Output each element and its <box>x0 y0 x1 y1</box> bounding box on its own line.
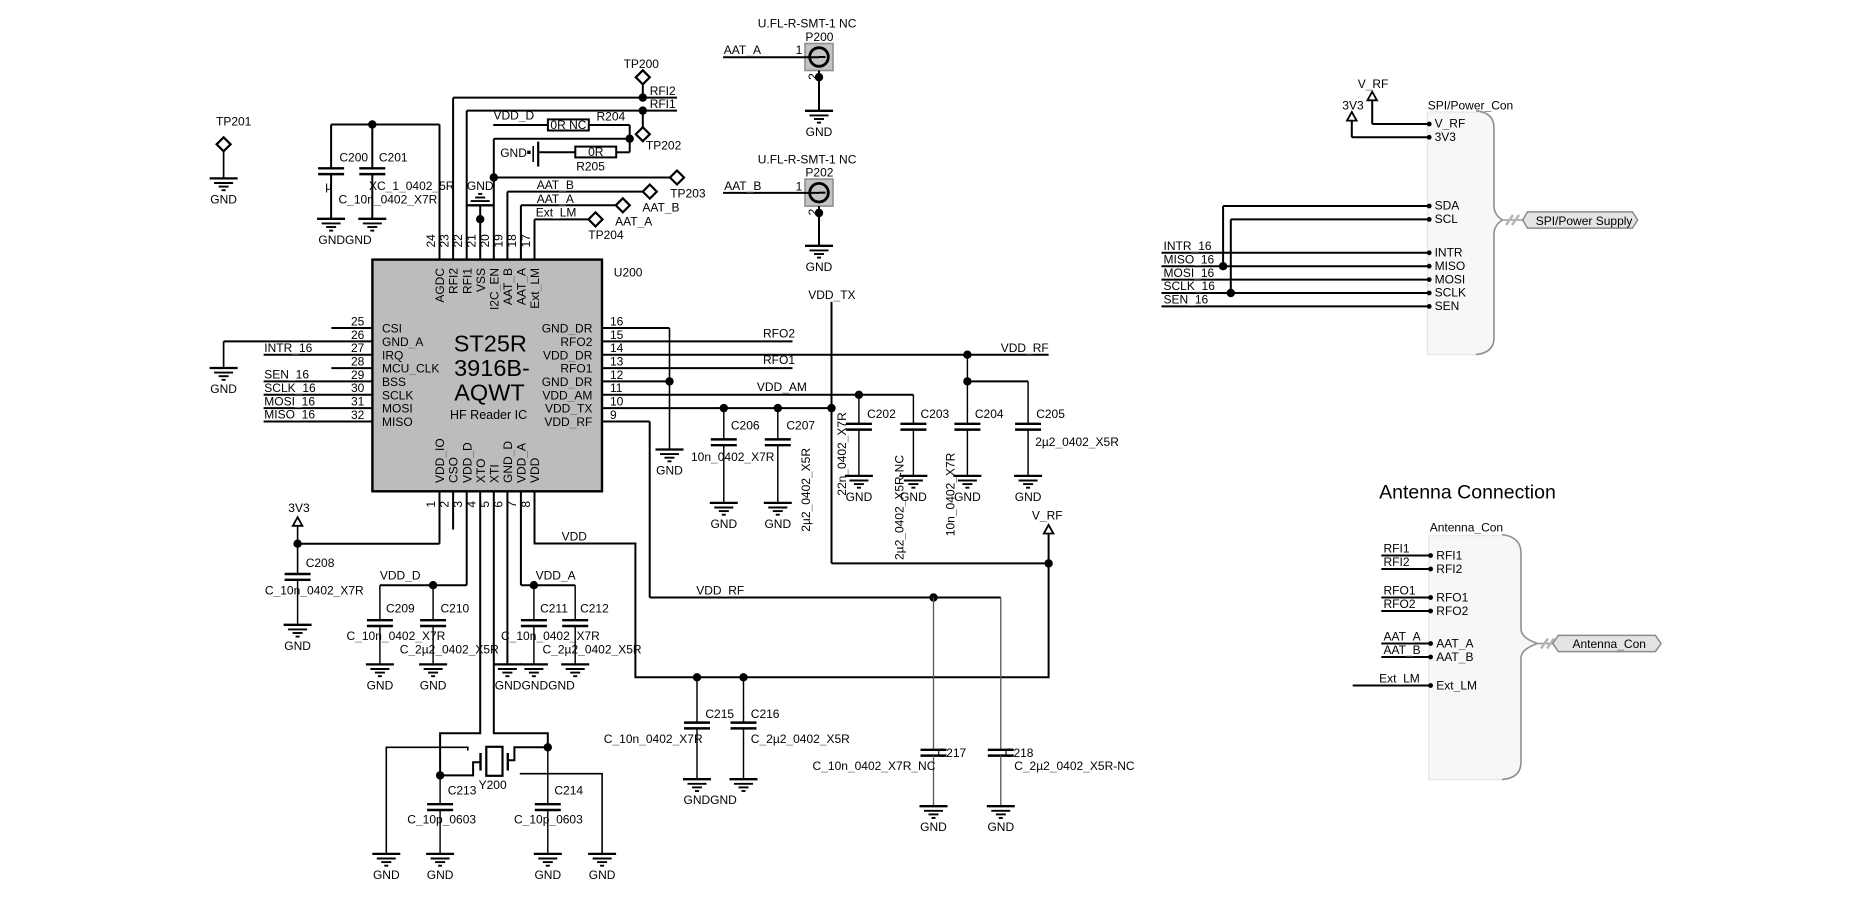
wire VDD_TX (pin 10) <box>602 407 832 409</box>
svg-text:VDD_D: VDD_D <box>380 568 421 582</box>
wire CSO stub (pin 2) <box>452 491 454 529</box>
svg-text:TP202: TP202 <box>646 139 682 153</box>
node C217 junction <box>929 593 937 601</box>
svg-text:MISO_16: MISO_16 <box>1164 252 1215 266</box>
svg-text:R205: R205 <box>576 160 605 174</box>
IC U200 right pin numbers 16-9 <box>610 314 624 422</box>
wire SEN_16 to harness <box>1162 305 1430 307</box>
node C207 junction <box>774 404 782 412</box>
node V_RF junction <box>1044 559 1052 567</box>
svg-text:µ: µ <box>325 179 332 193</box>
node VSS dot <box>476 215 484 223</box>
wire AAT_B to Antenna_Con <box>1381 656 1430 658</box>
svg-text:9: 9 <box>610 408 617 422</box>
wire AAT_A row (pin 18) <box>521 205 616 259</box>
capacitor C217 (NC) <box>813 598 967 807</box>
svg-text:C210: C210 <box>441 602 470 616</box>
ground GND (P202) <box>805 246 833 274</box>
svg-text:C214: C214 <box>554 784 583 798</box>
IC U200 ST25R3916B-AQWT body <box>372 260 642 492</box>
harness label SPI/Power Supply <box>1523 212 1638 228</box>
ground GND (C202) <box>845 476 873 504</box>
wire VDD_DR / VDD_RF net (pin 14) <box>602 354 1049 356</box>
svg-text:Ext_LM: Ext_LM <box>1436 679 1477 693</box>
ground GND (C206) <box>710 503 738 531</box>
node C206 junction <box>720 404 728 412</box>
svg-text:GND: GND <box>806 125 833 139</box>
power flag 3V3 (SPI) <box>1342 99 1364 121</box>
svg-text:XTI: XTI <box>487 464 501 483</box>
harness connector Antenna_Con panel <box>1429 520 1538 779</box>
svg-text:C207: C207 <box>786 418 815 432</box>
svg-text:Y200: Y200 <box>479 778 507 792</box>
capacitor C200 <box>318 151 368 219</box>
node 3V3 junction <box>293 540 301 548</box>
svg-text:GND: GND <box>987 820 1014 834</box>
wire AAT_B row (pin 19) <box>507 192 642 260</box>
wire AAT_A to Antenna_Con <box>1381 643 1430 645</box>
svg-text:MCU_CLK: MCU_CLK <box>382 362 439 376</box>
capacitor C210 <box>400 585 499 664</box>
svg-text:VDD: VDD <box>528 457 542 483</box>
node SDA/MISO_16 junction <box>1219 262 1227 270</box>
svg-text:VDD: VDD <box>562 530 588 544</box>
connector P202 (U.FL-R-SMT-1 NC) <box>758 153 857 207</box>
power flag V_RF (SPI) <box>1358 77 1389 100</box>
svg-text:C218: C218 <box>1005 746 1034 760</box>
wire crystal frame left to ground <box>386 747 468 854</box>
ground GND (C201) <box>318 219 386 247</box>
wire CSI stub (pin 25) <box>331 327 372 329</box>
node TP203 tap junction <box>490 173 498 181</box>
svg-text:MISO_16: MISO_16 <box>264 408 315 422</box>
svg-text:XC_1_0402_5R: XC_1_0402_5R <box>369 179 455 193</box>
svg-text:RFI1: RFI1 <box>650 97 676 111</box>
svg-text:AAT_A: AAT_A <box>1436 637 1473 651</box>
wire MISO_16 to harness <box>1162 265 1430 267</box>
wire VDD_A net (pin 7) <box>521 491 575 620</box>
wire AAT_B to P202 pin 1 <box>723 192 819 194</box>
svg-text:10n_0402_X7R: 10n_0402_X7R <box>691 450 775 464</box>
svg-text:VDD_DR: VDD_DR <box>543 348 593 362</box>
svg-text:Ext_LM: Ext_LM <box>528 268 542 309</box>
wire 3V3 to harness <box>1352 121 1429 138</box>
capacitor C205 <box>1015 407 1119 476</box>
svg-text:C201: C201 <box>379 151 408 165</box>
node VDD_TX junction <box>827 404 835 412</box>
svg-text:C211: C211 <box>540 602 568 616</box>
wire GND_D (pin 6) <box>506 491 508 664</box>
wire MOSI_16 (pin 31) <box>264 407 373 409</box>
node P202 pin 2 dot <box>815 209 823 217</box>
svg-text:19: 19 <box>492 234 506 248</box>
svg-text:30: 30 <box>351 381 365 395</box>
node C216 junction <box>739 673 747 681</box>
svg-text:20: 20 <box>478 234 492 248</box>
svg-text:GND: GND <box>367 678 394 692</box>
svg-text:2µ2_0402_X5R: 2µ2_0402_X5R <box>799 448 813 532</box>
svg-text:MOSI: MOSI <box>382 402 413 416</box>
svg-text:AAT_A: AAT_A <box>615 215 652 229</box>
svg-text:GND: GND <box>954 490 981 504</box>
power flag V_RF <box>1032 509 1063 534</box>
svg-text:RFI2: RFI2 <box>1436 562 1462 576</box>
svg-text:AAT_B: AAT_B <box>1384 643 1421 657</box>
node RFI2/TP200 junction <box>639 93 647 101</box>
node C202 junction <box>855 391 863 399</box>
svg-text:C_2µ2_0402_X5R: C_2µ2_0402_X5R <box>543 643 642 657</box>
crystal Y200 <box>479 747 508 792</box>
ground GND net tick (R205) <box>500 142 538 167</box>
svg-text:SDA: SDA <box>1435 199 1460 213</box>
svg-text:VDD_A: VDD_A <box>515 443 529 483</box>
wire VDD_RF run (pin 9) <box>602 422 1001 598</box>
svg-text:GND_D: GND_D <box>501 441 515 483</box>
svg-text:18: 18 <box>505 234 519 248</box>
test point TP200 <box>624 57 660 98</box>
svg-text:AAT_B: AAT_B <box>501 268 515 305</box>
svg-text:GND: GND <box>500 146 527 160</box>
svg-text:24: 24 <box>424 234 438 248</box>
svg-text:VDD_AM: VDD_AM <box>757 380 807 394</box>
svg-text:SCLK: SCLK <box>1435 286 1466 300</box>
svg-text:C215: C215 <box>705 707 734 721</box>
svg-text:RFO2: RFO2 <box>560 335 592 349</box>
ground GND (GND_D) <box>493 664 521 676</box>
node R204/R205 junction <box>626 135 634 143</box>
capacitor C214 <box>514 747 583 854</box>
svg-text:11: 11 <box>610 381 623 395</box>
svg-text:AQWT: AQWT <box>454 379 525 405</box>
svg-text:P202: P202 <box>805 166 833 180</box>
wire RFO2 to Antenna_Con <box>1381 610 1430 612</box>
svg-text:SEN_16: SEN_16 <box>1164 293 1209 307</box>
svg-text:RFO1: RFO1 <box>1436 591 1468 605</box>
ground GND (C207) <box>764 503 792 531</box>
wire R204 right <box>589 125 630 152</box>
wire crystal frame right to ground <box>520 774 602 854</box>
svg-text:25: 25 <box>351 314 365 328</box>
ground GND (C200) <box>317 219 345 231</box>
svg-text:C216: C216 <box>751 707 780 721</box>
wire crystal right lead <box>509 747 548 760</box>
wire MISO_16 (pin 32) <box>264 421 373 423</box>
svg-text:AAT_B: AAT_B <box>1436 650 1473 664</box>
node P200 pin 2 dot <box>815 73 823 81</box>
svg-text:GND_DR: GND_DR <box>542 375 593 389</box>
wire INTR_16 to harness <box>1162 252 1430 254</box>
ground GND (C213) <box>426 854 454 882</box>
capacitor C213 <box>407 775 476 854</box>
svg-text:27: 27 <box>351 341 365 355</box>
svg-text:VDD_RF: VDD_RF <box>1001 341 1049 355</box>
capacitor C218 (NC) <box>988 598 1135 807</box>
svg-text:GNDGND: GNDGND <box>684 793 738 807</box>
capacitor C202 <box>835 395 896 496</box>
svg-text:AAT_B: AAT_B <box>724 179 761 193</box>
wire AGDC net (C200/C201 to pin 24) <box>331 125 439 260</box>
wire TP203 row <box>494 177 670 179</box>
svg-text:AAT_A: AAT_A <box>724 43 761 57</box>
svg-text:28: 28 <box>351 355 365 369</box>
svg-text:GNDGND: GNDGND <box>318 233 372 247</box>
svg-text:INTR: INTR <box>1435 246 1463 260</box>
svg-text:VDD_A: VDD_A <box>536 568 576 582</box>
test point TP204 <box>588 212 624 242</box>
IC U200 top pin numbers 24-17 <box>424 234 533 248</box>
wire XTO (pin 4) to crystal <box>440 491 480 775</box>
wire VSS (pin 21) <box>479 205 481 259</box>
test point TP202 <box>636 111 682 153</box>
svg-text:22n_0402_X7R: 22n_0402_X7R <box>835 412 849 496</box>
svg-text:3V3: 3V3 <box>1342 99 1364 113</box>
wire XTI (pin 5) to crystal <box>494 491 548 747</box>
svg-text:GND: GND <box>534 868 561 882</box>
wire SEN_16 (pin 29) <box>264 380 373 382</box>
wire GND tick to R205 <box>539 151 575 153</box>
svg-text:MOSI_16: MOSI_16 <box>1164 266 1215 280</box>
node AGDC junction <box>368 120 376 128</box>
node RFI1/TP202 junction <box>639 106 647 114</box>
harness bundle link Antenna <box>1537 639 1554 649</box>
svg-text:P200: P200 <box>805 30 833 44</box>
svg-text:VDD_RF: VDD_RF <box>696 584 744 598</box>
IC U200 right pin names <box>542 322 593 430</box>
wire RFI1 to Antenna_Con <box>1381 555 1430 557</box>
svg-text:VDD_TX: VDD_TX <box>808 288 855 302</box>
svg-text:SPI/Power_Con: SPI/Power_Con <box>1428 99 1513 113</box>
svg-text:Antenna Connection: Antenna Connection <box>1379 482 1556 504</box>
svg-text:TP200: TP200 <box>624 57 660 71</box>
ground GND (GND_A) <box>210 368 238 396</box>
wire MOSI_16 to harness <box>1162 279 1430 281</box>
svg-text:3V3: 3V3 <box>288 501 310 515</box>
svg-text:INTR_16: INTR_16 <box>1164 239 1212 253</box>
svg-text:RFO1: RFO1 <box>1384 584 1416 598</box>
ground GND (C214) <box>534 854 562 882</box>
node GND_DR junction <box>665 377 673 385</box>
wire SDA (to MISO_16) <box>1223 206 1429 266</box>
svg-text:1: 1 <box>424 501 438 508</box>
svg-text:GND: GND <box>1015 490 1042 504</box>
svg-text:C204: C204 <box>975 407 1004 421</box>
wire VDD_TX vertical <box>832 302 1049 564</box>
wire crystal left lead <box>440 762 479 775</box>
wire RFI2 to Antenna_Con <box>1381 568 1430 570</box>
svg-text:MOSI_16: MOSI_16 <box>264 394 315 408</box>
ground GND (VSS, inverted) <box>467 179 494 206</box>
svg-text:GND: GND <box>846 490 873 504</box>
svg-text:MISO: MISO <box>382 415 413 429</box>
harness pin dots and names (SPI/Power_Con) <box>1427 117 1466 313</box>
wire RFO1 to Antenna_Con <box>1381 597 1430 599</box>
svg-text:SEN_16: SEN_16 <box>264 368 309 382</box>
wire V_RF vertical <box>1048 534 1050 564</box>
svg-text:AAT_B: AAT_B <box>537 178 574 192</box>
svg-text:1: 1 <box>796 179 803 193</box>
test point TP203 <box>670 171 706 201</box>
svg-text:RFI2: RFI2 <box>1384 555 1410 569</box>
harness label Antenna_Con <box>1553 635 1661 651</box>
svg-text:C203: C203 <box>921 407 950 421</box>
svg-text:12: 12 <box>610 368 624 382</box>
svg-text:SCL: SCL <box>1435 212 1459 226</box>
svg-text:RFO1: RFO1 <box>560 362 592 376</box>
svg-text:2µ2_0402_X5R-NC: 2µ2_0402_X5R-NC <box>892 455 906 560</box>
test point AAT_B <box>642 185 679 215</box>
svg-text:1: 1 <box>796 43 803 57</box>
node C211 junction <box>530 581 538 589</box>
svg-text:C_10p_0603: C_10p_0603 <box>407 813 476 827</box>
wire P202 pin 2 to ground <box>818 206 820 246</box>
svg-text:GND: GND <box>589 868 616 882</box>
test point TP201 <box>216 115 252 152</box>
connector P200 (U.FL-R-SMT-1 NC) <box>758 17 857 71</box>
capacitor C203 <box>892 407 949 560</box>
svg-text:V_RF: V_RF <box>1358 77 1389 91</box>
IC U200 bottom pin numbers 1-8 <box>424 501 533 508</box>
IC U200 top pin names <box>433 268 542 310</box>
svg-text:2µ2_0402_X5R: 2µ2_0402_X5R <box>1035 435 1119 449</box>
svg-text:VSS: VSS <box>474 268 488 292</box>
wire RFO1 (pin 13) <box>602 367 793 369</box>
svg-text:C_10n_0402_X7R: C_10n_0402_X7R <box>265 584 364 598</box>
harness pin dots and names (Antenna_Con) <box>1428 549 1477 693</box>
svg-text:3916B-: 3916B- <box>454 355 530 381</box>
svg-text:Antenna_Con: Antenna_Con <box>1430 520 1503 534</box>
svg-text:C_10n_0402_X7R: C_10n_0402_X7R <box>501 629 600 643</box>
svg-text:C212: C212 <box>580 602 609 616</box>
svg-text:RFI2: RFI2 <box>447 268 461 294</box>
svg-text:RFO2: RFO2 <box>1436 604 1468 618</box>
svg-text:31: 31 <box>351 395 365 409</box>
IC U200 left pin numbers 25-32 <box>351 314 365 422</box>
svg-text:SCLK: SCLK <box>382 388 413 402</box>
svg-text:GND: GND <box>373 868 400 882</box>
capacitor C211 <box>501 585 600 664</box>
svg-text:U.FL-R-SMT-1 NC: U.FL-R-SMT-1 NC <box>758 17 857 31</box>
IC U200 bottom pin names <box>433 438 542 483</box>
svg-text:XTO: XTO <box>474 459 488 483</box>
IC U200 left pin names <box>382 322 439 430</box>
svg-text:VDD_TX: VDD_TX <box>545 402 592 416</box>
svg-text:GND: GND <box>420 678 447 692</box>
svg-text:GND: GND <box>210 382 237 396</box>
svg-text:ST25R: ST25R <box>454 331 527 357</box>
ground GND (C204) <box>953 476 981 504</box>
svg-text:RFI2: RFI2 <box>650 84 676 98</box>
svg-text:C200: C200 <box>339 151 368 165</box>
svg-text:U.FL-R-SMT-1 NC: U.FL-R-SMT-1 NC <box>758 153 857 167</box>
svg-text:C_10n_0402_X7R: C_10n_0402_X7R <box>604 732 703 746</box>
wire INTR_16 (pin 27) <box>264 354 373 356</box>
node VDD_RF junction at C204 <box>963 351 971 359</box>
svg-text:22: 22 <box>451 234 465 248</box>
svg-text:MOSI: MOSI <box>1435 272 1466 286</box>
harness bundle link SPI <box>1502 215 1522 225</box>
wire MCU_CLK stub (pin 28) <box>331 367 372 369</box>
svg-text:C209: C209 <box>386 602 415 616</box>
ground GND (C205) <box>1014 476 1042 504</box>
svg-text:3V3: 3V3 <box>1435 130 1457 144</box>
svg-text:VDD_D: VDD_D <box>494 109 535 123</box>
svg-text:I2C_EN: I2C_EN <box>487 268 501 310</box>
ground GND (C208) <box>284 625 312 653</box>
svg-text:17: 17 <box>519 234 533 248</box>
svg-text:GND: GND <box>806 260 833 274</box>
resistor R204 <box>548 110 626 132</box>
capacitor C216 <box>731 677 851 779</box>
ground GND (GND_DR) <box>656 450 684 478</box>
svg-text:VDD_D: VDD_D <box>460 442 474 483</box>
svg-text:C208: C208 <box>306 556 335 570</box>
svg-text:VDD_AM: VDD_AM <box>542 388 592 402</box>
svg-text:RFO2: RFO2 <box>1384 597 1416 611</box>
ground GND (TP201) <box>210 178 238 206</box>
svg-text:15: 15 <box>610 328 624 342</box>
ground GND (C209) <box>366 664 394 692</box>
svg-text:GND: GND <box>900 490 927 504</box>
svg-text:TP201: TP201 <box>216 115 252 129</box>
svg-text:C_10n_0402_X7R: C_10n_0402_X7R <box>339 193 438 207</box>
wire AAT_A to P200 pin 1 <box>723 56 819 58</box>
node SCL/SCLK_16 junction <box>1227 289 1235 297</box>
ground GND (C216) <box>684 779 758 807</box>
node C210 junction <box>429 581 437 589</box>
wire TP201 to ground <box>223 151 225 178</box>
node C215 junction <box>693 673 701 681</box>
svg-text:10: 10 <box>610 395 624 409</box>
svg-text:GND: GND <box>710 517 737 531</box>
wire VDD_AM (pin 11) <box>602 395 913 424</box>
wire Ext_LM to Antenna_Con <box>1353 685 1431 687</box>
svg-text:C_10n_0402_X7R: C_10n_0402_X7R <box>347 629 446 643</box>
svg-text:C_2µ2_0402_X5R-NC: C_2µ2_0402_X5R-NC <box>1014 759 1135 773</box>
svg-text:14: 14 <box>610 341 624 355</box>
svg-text:C_10n_0402_X7R_NC: C_10n_0402_X7R_NC <box>813 759 936 773</box>
svg-text:BSS: BSS <box>382 375 406 389</box>
ground GND (crystal right) <box>588 854 616 882</box>
svg-text:AAT_A: AAT_A <box>1384 630 1421 644</box>
wire RFO2 (pin 15) <box>602 340 793 342</box>
node C214 junction <box>544 743 552 751</box>
wire P200 pin 2 to ground <box>818 71 820 111</box>
svg-text:C206: C206 <box>731 418 760 432</box>
wire SCL (to SCLK_16) <box>1231 219 1429 293</box>
capacitor C207 <box>765 408 816 532</box>
ground GND (C215) <box>683 779 711 791</box>
svg-text:TP204: TP204 <box>588 228 624 242</box>
wire RFI2 net (pin 23) <box>453 98 677 260</box>
capacitor C215 <box>604 677 735 779</box>
svg-text:29: 29 <box>351 368 365 382</box>
svg-text:GND: GND <box>284 639 311 653</box>
svg-text:GND: GND <box>920 820 947 834</box>
svg-text:26: 26 <box>351 328 365 342</box>
svg-text:AAT_B: AAT_B <box>642 201 679 215</box>
svg-text:VDD_RF: VDD_RF <box>544 415 592 429</box>
capacitor C209 <box>347 602 446 665</box>
svg-text:16: 16 <box>610 314 624 328</box>
svg-text:GND_A: GND_A <box>382 335 423 349</box>
node C213 junction <box>436 771 444 779</box>
svg-text:C205: C205 <box>1036 407 1065 421</box>
wire VDD_D to R204 <box>493 124 548 126</box>
svg-text:MISO: MISO <box>1435 259 1466 273</box>
svg-text:32: 32 <box>351 408 365 422</box>
ground GND (C212) <box>495 664 589 692</box>
capacitor C201 <box>339 151 455 219</box>
